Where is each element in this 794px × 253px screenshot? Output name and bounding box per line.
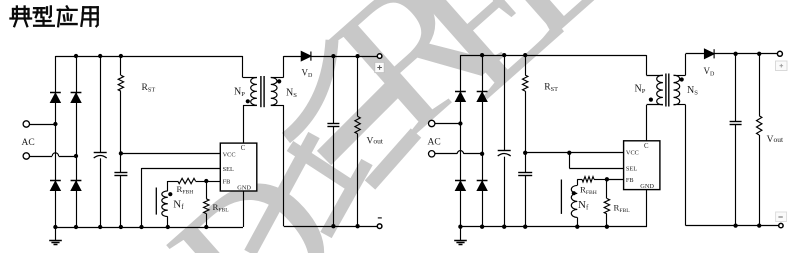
wire secondary bottom rail right circuit — [686, 225, 779, 227]
capacitor output left — [333, 56, 335, 124]
core bar Nf right — [560, 180, 562, 214]
core bar Nf left — [155, 188, 157, 215]
wire AC top right — [435, 123, 461, 125]
terminal + left — [377, 54, 382, 59]
capacitor VCC left — [120, 153, 122, 172]
pin GND left IC — [243, 191, 245, 227]
pin C right IC — [646, 105, 648, 141]
svg-text:VCC: VCC — [626, 150, 639, 157]
wire bottom rail (primary) left circuit — [55, 227, 243, 229]
transformer core right — [665, 74, 667, 107]
wire SEL line left (tied to ground rail) — [142, 168, 221, 170]
resistor RST right — [525, 55, 527, 75]
phase dot Ns right — [680, 77, 684, 81]
title 典型应用 — [10, 6, 97, 26]
phase dot Np left — [246, 99, 250, 103]
svg-text:C: C — [644, 143, 649, 150]
diode VD left — [301, 52, 311, 61]
label Vout left — [365, 134, 392, 146]
wire AC bottom right (hop) — [435, 153, 457, 155]
wire top rail left circuit — [55, 56, 242, 58]
wire FB line left — [206, 181, 220, 183]
winding Ns right — [674, 75, 680, 105]
wire VCC line right — [525, 152, 623, 154]
terminal + right — [777, 51, 782, 56]
wire bridge right column right ckt — [482, 55, 484, 227]
svg-text:GND: GND — [640, 183, 654, 190]
diode D6 bridge upper-right — [477, 92, 487, 101]
svg-text:C: C — [241, 145, 246, 152]
wire secondary bottom rail left circuit — [284, 226, 378, 228]
diode D2 bridge upper-right — [71, 93, 81, 102]
winding Nf right — [577, 179, 579, 185]
winding Np left — [242, 56, 244, 78]
wire VCC line left — [121, 153, 220, 155]
resistor RFBL right — [606, 179, 608, 198]
wire top rail right circuit — [460, 55, 646, 57]
capacitor output right — [735, 54, 737, 122]
pin C left IC — [243, 105, 245, 143]
wire bridge right column — [76, 56, 78, 227]
wire bridge left column right ckt — [460, 55, 462, 227]
diode D3 bridge lower-left — [51, 181, 61, 190]
svg-text:SEL: SEL — [223, 166, 234, 173]
label Vout right — [765, 132, 793, 144]
node FB left — [204, 179, 208, 183]
terminal - right — [779, 223, 783, 227]
phase dot Nf left — [168, 192, 172, 196]
svg-text:FB: FB — [626, 177, 634, 184]
ground symbol left — [55, 227, 57, 241]
transformer core left — [260, 76, 262, 107]
wire SEL line right (tied to VCC) — [569, 153, 571, 168]
wire AC top left — [30, 124, 56, 126]
wire bridge left column — [55, 56, 57, 227]
svg-text:AC: AC — [428, 138, 441, 148]
resistor RFBL left — [206, 181, 208, 199]
capacitor bulk electrolytic right — [504, 55, 506, 151]
node FB right — [605, 177, 609, 181]
watermark PRELIMINARY — [292, 0, 534, 174]
winding Nf left — [167, 181, 169, 191]
artifact + box right — [776, 61, 788, 71]
diode VD right — [705, 49, 715, 58]
resistor RFBH right (horizontal) — [577, 179, 582, 181]
winding Ns left — [271, 78, 277, 106]
node SEL strap right — [567, 151, 571, 155]
node VCC left — [119, 151, 123, 155]
AC source terminals right — [429, 120, 435, 126]
artifact - box right — [776, 212, 787, 222]
capacitor VCC right — [525, 153, 527, 173]
wire secondary top left circuit — [284, 56, 302, 58]
pin GND right IC — [646, 190, 648, 227]
diode D1 bridge upper-left — [51, 93, 61, 102]
svg-text:GND: GND — [237, 184, 251, 191]
phase dot Ns left — [277, 79, 281, 83]
svg-text:SEL: SEL — [626, 165, 637, 172]
op IC U2 right — [624, 141, 660, 190]
capacitor bulk electrolytic left — [100, 56, 102, 152]
artifact + box left — [375, 62, 384, 72]
wire AC bottom left (hop over bridge column) — [30, 156, 53, 158]
node VCC right — [523, 151, 527, 155]
diode D4 bridge lower-right — [71, 181, 81, 190]
wire bottom rail (primary) right circuit — [460, 226, 647, 228]
wire FB line right — [607, 179, 624, 181]
svg-text:VCC: VCC — [223, 151, 236, 158]
svg-text:Vout: Vout — [367, 136, 384, 146]
phase dot Nf right — [572, 191, 576, 195]
diode D7 bridge lower-left — [456, 181, 466, 190]
diode D5 bridge upper-left — [456, 92, 466, 101]
diode D8 bridge lower-right — [477, 181, 487, 190]
winding Np right — [646, 55, 648, 75]
resistor RFBH left (horizontal) — [168, 181, 178, 183]
resistor load right — [759, 54, 761, 116]
svg-text:FB: FB — [223, 179, 231, 186]
op IC U1 left — [220, 143, 256, 191]
wire secondary top right circuit — [686, 53, 705, 55]
svg-text:AC: AC — [22, 138, 35, 148]
phase dot Np right — [649, 98, 653, 102]
resistor load left — [357, 56, 359, 116]
svg-text:Vout: Vout — [767, 135, 784, 145]
ground symbol right — [460, 227, 462, 241]
resistor RST left — [120, 56, 122, 75]
terminal - left — [377, 224, 382, 229]
AC source terminals left — [23, 121, 29, 127]
